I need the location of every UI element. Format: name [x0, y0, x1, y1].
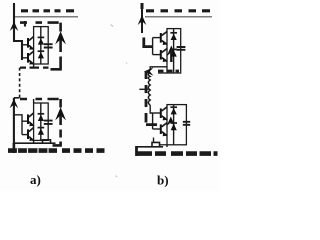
transistor Q2 fig b: [153, 48, 168, 62]
loop top dashes fig a cell 2: [20, 98, 59, 101]
scan speck 2: [116, 176, 118, 178]
bus joint left fig a: [13, 143, 16, 153]
diode D4 fig b: [170, 123, 177, 130]
commutation loop top dashes fig a cell 1: [20, 21, 59, 24]
transistor Q3 fig b: [153, 107, 168, 121]
coil bottom link fig b: [150, 105, 152, 113]
wire left feeder fig b: [141, 3, 143, 33]
gate bus fig b cell 2: [152, 113, 154, 129]
gate bus fig b cell 1: [152, 38, 154, 55]
bus bottom step fig b: [152, 142, 160, 146]
transistor Q4 fig a: [22, 127, 34, 141]
bus bar bottom dashed fig a: [8, 148, 105, 153]
capacitor C1 fig a: [44, 44, 53, 47]
bus joint left fig b: [135, 146, 138, 156]
bus bar top dashed (positive plate) fig a: [21, 9, 74, 12]
capacitor C2 fig b: [183, 122, 190, 125]
wire module1 to loop bottom fig a: [33, 64, 35, 68]
scan speck 3: [126, 63, 127, 64]
transistor Q4 fig b: [153, 123, 168, 137]
diode D3 fig b: [170, 105, 177, 145]
arrow commutation loop fig a cell 1 (up): [55, 31, 66, 44]
bus bar bottom dashed fig b: [137, 151, 218, 156]
loop right leg fig a cell 1: [51, 23, 62, 70]
transistor Q3 fig a: [22, 113, 34, 126]
emitter exit wire fig b cell 1: [150, 67, 167, 70]
loop right leg fig a cell 2: [53, 99, 62, 146]
diode D2 fig b: [170, 49, 177, 56]
arrow current i1 (up) fig b: [138, 15, 147, 25]
transistor Q2 fig a: [22, 51, 34, 65]
arrow commutation loop fig a cell 2 (up): [55, 107, 66, 120]
module outline fig b cell 1: [167, 29, 181, 73]
stray inductance coil fig b: [148, 72, 150, 105]
bus bottom step fig a: [43, 140, 51, 143]
wire module2 top tick fig a: [33, 99, 35, 103]
wire module2 to bus fig a: [33, 140, 35, 143]
wire left feeder fig a: [14, 3, 22, 60]
diode D2 fig a: [38, 51, 45, 58]
bus bar top solid return fig b: [145, 16, 212, 18]
loop dashed left leg fig b: [146, 71, 157, 125]
module bottom edge extension fig b cell 2: [160, 144, 167, 146]
bus bar bottom solid fig b: [137, 146, 164, 148]
wire left feeder lower fig a: [13, 98, 15, 151]
module bottom edge extension fig b cell 1: [158, 72, 167, 74]
scan speck 1: [111, 25, 114, 27]
capacitor C2 fig a: [44, 121, 53, 124]
dashed link left fig a: [19, 68, 21, 98]
loop bottom dashes fig a cell 1: [20, 66, 49, 68]
wire module to bus fig b: [166, 145, 168, 147]
svg-text:b): b): [157, 173, 169, 188]
loop dashes horizontal fig b: [158, 70, 179, 73]
bus bar top dashed fig b: [146, 9, 210, 12]
feeder thick head fig b: [141, 3, 144, 9]
arrow current i2 (up) lower feeder fig a: [10, 99, 19, 109]
diode D3 fig a: [38, 103, 45, 140]
diode D4 fig a: [38, 128, 45, 135]
crossbar tick fig b: [139, 88, 148, 90]
transistor Q1 fig b: [153, 31, 168, 45]
svg-text:a): a): [30, 172, 41, 187]
arrow loop (left) fig b: [144, 67, 154, 75]
loop dash + corner to gate bus fig b: [144, 38, 153, 47]
bus bar top solid return fig a: [15, 16, 78, 18]
module outline fig a cell 2: [34, 103, 49, 140]
arrow current i1 (up) on left feeder fig a: [10, 22, 19, 32]
module outline fig a cell 1: [34, 27, 49, 64]
bus bar bottom solid fig a: [13, 142, 56, 144]
capacitor C1 fig b: [177, 47, 186, 50]
transistor Q1 fig a: [22, 36, 34, 49]
arrow commutation loop fig b cell 2 (up): [166, 117, 175, 127]
module outline fig b cell 2: [167, 105, 186, 145]
corner dashed link to feeder fig a: [14, 97, 20, 99]
gate feed wires fig a cell 2: [14, 115, 22, 135]
loop corner tick fig a cell 1: [24, 21, 26, 27]
arrow commutation loop fig b cell 1 (up): [167, 46, 176, 63]
diode D1 fig b: [170, 29, 177, 73]
diode D1 fig a: [38, 27, 45, 64]
wire tick above step fig b: [153, 138, 155, 143]
